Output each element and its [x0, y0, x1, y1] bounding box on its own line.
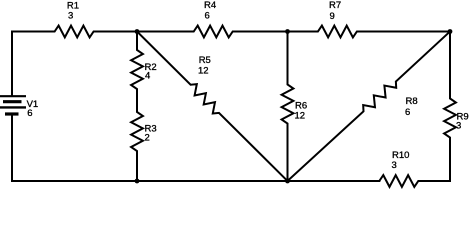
- svg-text:9: 9: [330, 11, 335, 22]
- svg-text:6: 6: [27, 108, 32, 119]
- svg-text:4: 4: [145, 71, 150, 82]
- svg-text:R4: R4: [204, 0, 216, 11]
- svg-text:R7: R7: [329, 0, 341, 11]
- svg-text:3: 3: [392, 160, 397, 171]
- svg-text:2: 2: [145, 133, 150, 144]
- svg-text:12: 12: [198, 66, 209, 77]
- svg-text:3: 3: [456, 121, 461, 132]
- svg-text:3: 3: [68, 10, 73, 21]
- svg-text:12: 12: [295, 111, 306, 122]
- svg-text:6: 6: [205, 11, 210, 22]
- svg-text:R8: R8: [406, 96, 418, 107]
- svg-text:R5: R5: [199, 55, 211, 66]
- svg-text:6: 6: [405, 107, 410, 118]
